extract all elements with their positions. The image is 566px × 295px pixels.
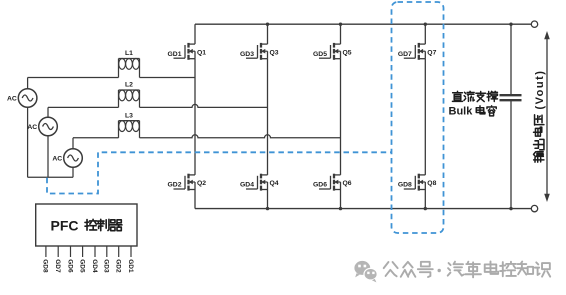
svg-text:GD2: GD2 xyxy=(168,182,182,189)
svg-text:Q7: Q7 xyxy=(427,49,436,56)
svg-text:GD3: GD3 xyxy=(240,51,254,58)
svg-text:GD4: GD4 xyxy=(91,259,98,273)
svg-text:AC: AC xyxy=(27,124,37,131)
svg-text:Q4: Q4 xyxy=(270,180,279,187)
svg-text:GD8: GD8 xyxy=(398,182,412,189)
svg-text:GD6: GD6 xyxy=(66,259,73,273)
svg-text:Q1: Q1 xyxy=(197,49,206,56)
svg-text:GD7: GD7 xyxy=(54,259,61,273)
svg-text:GD5: GD5 xyxy=(313,51,327,58)
svg-text:PFC: PFC xyxy=(51,218,79,234)
svg-text:GD6: GD6 xyxy=(313,182,327,189)
svg-text:L2: L2 xyxy=(125,82,133,89)
svg-text:AC: AC xyxy=(52,156,62,163)
svg-text:GD4: GD4 xyxy=(240,182,254,189)
svg-text:AC: AC xyxy=(7,96,17,103)
svg-text:GD1: GD1 xyxy=(168,51,182,58)
svg-text:(Vout): (Vout) xyxy=(534,70,546,110)
svg-text:L1: L1 xyxy=(125,50,133,57)
svg-text:GD3: GD3 xyxy=(103,259,110,273)
svg-text:Q2: Q2 xyxy=(197,180,206,187)
svg-text:Q6: Q6 xyxy=(343,180,352,187)
svg-text:GD1: GD1 xyxy=(127,259,134,273)
svg-text:Q5: Q5 xyxy=(343,49,352,56)
svg-text:GD7: GD7 xyxy=(398,51,412,58)
svg-text:GD8: GD8 xyxy=(42,259,49,273)
svg-text:GD5: GD5 xyxy=(78,259,85,273)
svg-text:Q3: Q3 xyxy=(270,49,279,56)
svg-text:GD2: GD2 xyxy=(115,259,122,273)
svg-text:Bulk: Bulk xyxy=(449,106,474,118)
svg-text:L3: L3 xyxy=(125,112,133,119)
svg-text:Q8: Q8 xyxy=(427,180,436,187)
